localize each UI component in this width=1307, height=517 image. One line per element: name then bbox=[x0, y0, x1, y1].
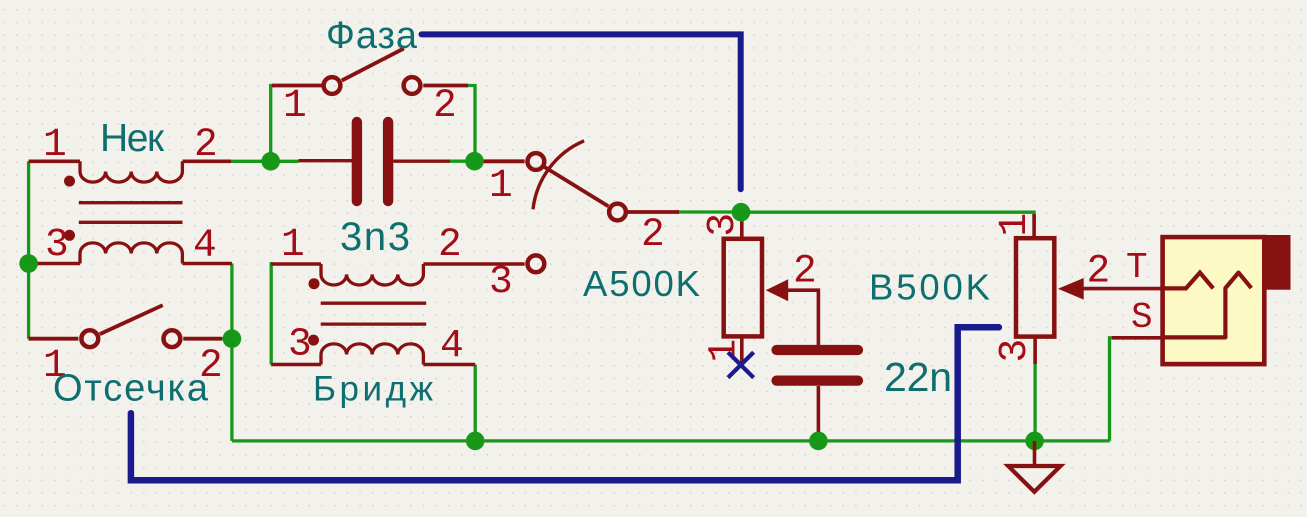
wire nek pin4 down bbox=[230, 264, 233, 339]
svg-text:Нек: Нек bbox=[100, 117, 165, 160]
wire cap 3n3 right lead bbox=[449, 160, 475, 163]
nek primary winding bbox=[80, 161, 182, 182]
svg-text:4: 4 bbox=[193, 223, 217, 268]
nek pin 3 line bbox=[29, 262, 80, 266]
b500k pin1 line bbox=[1032, 214, 1036, 240]
nek pin 1 line bbox=[29, 160, 80, 164]
junction bottom 22n bbox=[809, 432, 828, 451]
spdt pin2 pad bbox=[609, 204, 626, 221]
bridge polarity dot 3 bbox=[308, 335, 319, 346]
svg-text:1: 1 bbox=[702, 339, 747, 363]
svg-text:3: 3 bbox=[489, 259, 513, 304]
wire cap 3n3 left lead bbox=[271, 160, 299, 163]
junction bottom bridge bbox=[466, 432, 485, 451]
bridge primary winding bbox=[321, 264, 423, 285]
b500k body bbox=[1016, 238, 1054, 336]
svg-text:2: 2 bbox=[194, 122, 218, 167]
otsechka pin2 line bbox=[183, 337, 222, 341]
b500k pin3 line bbox=[1033, 337, 1037, 364]
faza pin2 line bbox=[423, 84, 468, 88]
svg-text:1: 1 bbox=[489, 163, 513, 208]
svg-text:4: 4 bbox=[440, 323, 464, 368]
nek secondary winding bbox=[80, 243, 182, 264]
svg-text:1: 1 bbox=[281, 222, 305, 267]
svg-text:3: 3 bbox=[288, 322, 312, 367]
cap 3n3 right lead (red) bbox=[393, 159, 450, 162]
wire bridge left vertical bbox=[270, 262, 273, 365]
faza pin2 pad bbox=[404, 77, 421, 94]
svg-text:1: 1 bbox=[283, 83, 307, 128]
wire otsechka pin2 vertical down bbox=[221, 339, 232, 441]
cap 3n3 left plate bbox=[352, 122, 362, 201]
svg-text:2: 2 bbox=[433, 83, 457, 128]
junction left (nek pin3) bbox=[19, 254, 38, 273]
jack sleeve contact bbox=[1160, 273, 1251, 338]
svg-text:2: 2 bbox=[793, 249, 817, 294]
svg-text:22n: 22n bbox=[884, 354, 952, 400]
wire switch pin2 to junction C bbox=[677, 210, 741, 213]
faza pin1 line bbox=[272, 84, 322, 88]
spdt pin2 line bbox=[628, 210, 679, 214]
a500k body bbox=[724, 239, 762, 337]
nek pin 4 line bbox=[183, 262, 232, 266]
wire Nek pin2 to junction A bbox=[231, 160, 271, 163]
cap 22n bottom plate bbox=[777, 376, 859, 386]
bridge pin 2 line bbox=[423, 262, 524, 266]
bridge core lines bbox=[321, 302, 427, 305]
svg-text:3: 3 bbox=[45, 222, 69, 267]
faza lever bbox=[342, 49, 404, 81]
bus bottom left bbox=[131, 327, 999, 480]
nek polarity dot 3 bbox=[64, 230, 75, 241]
wire B500K pin3 down bbox=[1033, 363, 1036, 441]
svg-text:B500K: B500K bbox=[869, 267, 990, 308]
svg-text:2: 2 bbox=[438, 222, 462, 267]
spdt pin1 line bbox=[479, 159, 525, 163]
cap 3n3 right plate bbox=[383, 122, 393, 201]
junction A (nek pin2) bbox=[261, 152, 280, 171]
ground stub bbox=[1033, 441, 1037, 465]
svg-text:Фаза: Фаза bbox=[326, 15, 418, 57]
b500k wiper wire to jack T bbox=[1081, 287, 1162, 291]
a500k wiper wire bbox=[786, 290, 818, 346]
cap 3n3 left lead (red) bbox=[299, 159, 353, 162]
a500k pin1 line bbox=[740, 336, 744, 362]
spdt lever bbox=[544, 167, 608, 206]
svg-text:2: 2 bbox=[1087, 249, 1111, 294]
faza pin1 pad bbox=[324, 77, 341, 94]
ground triangle bbox=[1008, 466, 1060, 492]
junction otsechka pin2 bbox=[223, 329, 242, 348]
svg-text:A500K: A500K bbox=[583, 263, 700, 304]
bridge secondary winding bbox=[321, 344, 423, 365]
wire jack S up bbox=[1110, 338, 1117, 441]
spdt arc bbox=[533, 141, 584, 210]
svg-text:3n3: 3n3 bbox=[340, 215, 410, 259]
nek pin 2 line bbox=[183, 160, 232, 164]
junction bottom ground bbox=[1025, 432, 1044, 451]
wire Faza pin2 down to junction B bbox=[466, 86, 475, 162]
svg-text:3: 3 bbox=[992, 339, 1037, 363]
otsechka pin1 line bbox=[29, 337, 79, 341]
b500k wiper arrow bbox=[1058, 278, 1084, 300]
a500k pin3 line bbox=[740, 212, 744, 238]
otsechka lever bbox=[100, 305, 163, 334]
wire bottom bus horizontal bbox=[232, 439, 1110, 442]
spdt pin1 pad bbox=[528, 153, 545, 170]
wire junction A up to Faza pin1 bbox=[271, 86, 274, 162]
bridge pin 3 line bbox=[271, 363, 321, 367]
svg-text:1: 1 bbox=[43, 122, 67, 167]
svg-text:T: T bbox=[1126, 247, 1148, 288]
wire left vertical (Nek pin1 to Otsechka) bbox=[27, 161, 30, 338]
cap 22n bottom lead bbox=[817, 386, 821, 441]
junction C (switch out) bbox=[732, 203, 751, 222]
jack S pin line bbox=[1112, 336, 1162, 340]
svg-text:1: 1 bbox=[992, 213, 1037, 237]
bridge pin 4 line bbox=[423, 363, 475, 367]
otsechka pin2 pad bbox=[164, 330, 181, 347]
cap 22n top plate bbox=[777, 345, 859, 355]
a500k wiper arrow bbox=[766, 279, 788, 301]
wire bridge pin4 down bbox=[474, 365, 477, 441]
svg-text:Бридж: Бридж bbox=[313, 370, 434, 409]
nek polarity dot 1 bbox=[64, 176, 75, 187]
otsechka pin1 pad bbox=[81, 330, 98, 347]
wire junction C to B500K pin1 bbox=[741, 212, 1034, 220]
bridge polarity dot 1 bbox=[309, 278, 320, 289]
bus Faza top bbox=[422, 34, 741, 189]
svg-text:2: 2 bbox=[641, 212, 665, 257]
jack body bbox=[1163, 237, 1265, 364]
nek core lines bbox=[79, 201, 183, 204]
jack tip contact bbox=[1160, 273, 1213, 289]
jack sleeve tab bbox=[1262, 235, 1291, 290]
a500k no-connect X bbox=[728, 352, 754, 377]
spdt pin3 pad bbox=[528, 255, 545, 272]
junction B (cap right) bbox=[465, 152, 484, 171]
svg-text:S: S bbox=[1131, 297, 1153, 338]
bridge pin 1 line bbox=[271, 262, 321, 266]
